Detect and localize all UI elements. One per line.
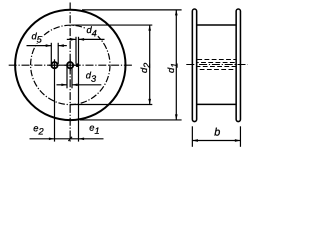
core pitch circle d2 (dash-dot) xyxy=(31,25,110,104)
d2 arrow top xyxy=(148,25,151,31)
d1 extension line bottom xyxy=(80,119,182,121)
e2/e1 oblique tick at shared extension line xyxy=(68,137,72,141)
d3 extension line right xyxy=(71,67,73,88)
d4 arrow right xyxy=(79,38,85,41)
d3 dimension line left tail xyxy=(57,84,68,86)
svg-text:d3: d3 xyxy=(86,70,97,83)
svg-text:e1: e1 xyxy=(89,123,99,136)
d4 / e1 extension line through dot xyxy=(78,37,80,142)
d2 arrow bottom xyxy=(148,99,151,105)
horizontal centerline xyxy=(9,64,133,66)
left hole vertical centerline / e2 extension line xyxy=(54,59,56,141)
d4 left extension line xyxy=(75,37,77,64)
hole left d5 xyxy=(51,62,57,68)
d4 arrow left xyxy=(70,38,76,41)
b extension line right xyxy=(239,126,241,147)
d5 arrow right xyxy=(58,44,64,47)
side view right flange xyxy=(236,9,240,122)
center hole vertical crosshair xyxy=(69,60,71,72)
d2 extension line bottom xyxy=(70,104,152,106)
side view hidden hole line upper middle (d4) xyxy=(197,62,235,64)
d2 dimension line xyxy=(149,25,151,105)
d1 extension line top xyxy=(82,9,182,11)
side view core bottom edge xyxy=(197,103,237,105)
side view hidden hole line bottom (d3/d5) xyxy=(197,69,235,71)
b arrow left xyxy=(192,139,198,142)
d5 dimension line left tail xyxy=(27,45,52,47)
d5 extension line left xyxy=(50,43,52,64)
svg-text:d1: d1 xyxy=(166,63,179,73)
center hole d3 xyxy=(67,62,73,68)
e1 arrow xyxy=(79,137,85,140)
d5 dimension line right tail xyxy=(58,45,67,47)
d3 arrow left xyxy=(61,83,67,86)
d1 arrow bottom xyxy=(175,114,178,120)
e1 e2 dimension line xyxy=(30,138,104,140)
d3 extension line left xyxy=(66,67,68,88)
d1 dimension line xyxy=(175,10,177,120)
side view left flange xyxy=(192,9,196,122)
d5 arrow left xyxy=(46,44,52,47)
b extension line left xyxy=(191,126,193,147)
d2 extension line top xyxy=(71,24,152,26)
d1 arrow top xyxy=(175,10,178,16)
small hole d4 (filled dot) xyxy=(76,63,80,67)
outer flange circle d1 xyxy=(15,10,125,120)
d3 dimension line right tail xyxy=(72,84,101,86)
side view horizontal centerline xyxy=(186,64,247,66)
e2 arrow xyxy=(49,137,55,140)
side view core top edge xyxy=(197,24,237,26)
center hole horizontal crosshair xyxy=(64,64,75,66)
white mask behind d4 label xyxy=(86,27,98,37)
left hole horizontal crosshair xyxy=(49,64,60,66)
vertical centerline xyxy=(69,3,71,142)
d4 dimension line right tail xyxy=(79,38,105,40)
b arrow right xyxy=(235,139,241,142)
side view hidden hole line lower middle (d4) xyxy=(197,66,235,68)
d5 extension line right xyxy=(57,43,59,64)
side view hidden hole line top (d3/d5) xyxy=(197,59,235,61)
b dimension line xyxy=(192,140,240,142)
d4 dimension line left tail xyxy=(67,38,76,40)
white mask behind d5 label xyxy=(31,32,43,44)
svg-text:e2: e2 xyxy=(33,123,43,136)
svg-text:b: b xyxy=(214,127,220,139)
d3 arrow right xyxy=(72,83,78,86)
